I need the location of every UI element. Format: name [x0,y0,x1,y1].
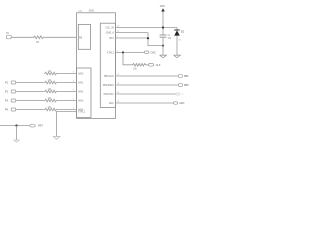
resistor R2 row y=73.5 [44,70,84,76]
ground [174,55,181,58]
connector circle OSC [144,51,149,54]
node junction [162,26,164,28]
power VCC symbol [160,4,166,35]
wire VCC pin y=27.5 [116,27,178,29]
U1 sub-block lower-left [77,68,92,117]
IC U1 outer block [77,13,116,119]
connector circle CLK [148,63,154,66]
svg-text:AIN0: AIN0 [78,73,84,76]
svg-text:AIN3: AIN3 [78,100,84,103]
connector P3 [11,99,16,102]
svg-text:8051: 8051 [89,9,95,13]
node junction [122,51,124,53]
svg-text:ADC: ADC [109,102,114,105]
wire [16,126,18,141]
resistor R6 row y=109.5 [5,106,84,112]
svg-text:PB1/SCK: PB1/SCK [104,75,115,78]
svg-text:AIN1: AIN1 [78,82,84,85]
ground [14,140,20,142]
wire [45,36,77,38]
connector P0 top-left [6,32,11,39]
no-connect marker [176,93,180,95]
wire [16,91,44,93]
wire L-shape to cap bottom [148,33,163,46]
wire XT pin y=52.5 [116,52,145,54]
node junction [162,45,164,47]
connector circle RST [30,124,35,127]
wire [58,91,77,93]
svg-text:OSC: OSC [151,51,156,54]
wire [16,82,44,84]
node junction [147,37,149,39]
svg-text:PB: PB [79,37,83,40]
svg-text:AIN2: AIN2 [78,91,84,94]
connector P4 [11,108,16,111]
wire [58,100,77,102]
wire L-shape down [123,53,132,65]
wire GND pin y=32.5 [116,32,149,34]
svg-text:XTAL1: XTAL1 [78,111,86,114]
ground [160,55,167,58]
wire ADC row y=103 [109,101,185,105]
svg-text:PB0/MISO: PB0/MISO [103,84,114,87]
wire PB1 row y=76 [104,74,189,78]
wire [58,82,77,84]
connector PB0 [178,84,182,87]
resistor R3 row y=82.5 [5,79,84,85]
wire bottom-left RST [0,125,30,127]
resistor R5 row y=100.5 [5,97,84,103]
resistor R3 [44,81,58,84]
wire [16,100,44,102]
svg-text:GND_A: GND_A [106,32,115,35]
wire NC row y=94 [104,92,185,96]
svg-text:PB2/OSC: PB2/OSC [104,93,115,96]
ground [53,137,60,140]
svg-text:PB1: PB1 [184,75,189,78]
svg-text:VCC: VCC [160,4,166,8]
diode D1 [174,28,185,56]
svg-text:ADC: ADC [179,102,184,105]
resistor R4 row y=91.5 [5,88,84,94]
svg-text:PB0: PB0 [184,84,189,87]
svg-text:RST: RST [38,125,43,128]
resistor R7 [132,64,147,67]
wire [11,36,33,38]
capacitor C1 [160,35,172,55]
U1 sub-block upper-left [78,24,90,49]
resistor R6 [44,108,58,111]
svg-text:CLK: CLK [156,64,161,67]
svg-text:R1: R1 [36,40,40,44]
wire [58,109,77,111]
resistor R2 [44,72,58,75]
wire RST pin y=38 [116,37,149,39]
wire [16,109,44,111]
connector circle ADC [173,102,177,105]
U1 sub-block right [100,23,115,107]
resistor R1 [33,36,45,39]
svg-text:VCC_IN: VCC_IN [105,27,114,30]
wire XTAL L-shape [57,112,77,137]
resistor R4 [44,90,58,93]
wire [147,64,149,66]
svg-text:NC: NC [182,94,186,96]
resistor R5 [44,99,58,102]
connector P2 [11,90,16,93]
connector PB1 [178,75,182,78]
svg-text:U1: U1 [79,9,83,13]
svg-text:XTAL2: XTAL2 [107,52,115,55]
wire [58,73,77,75]
wire PB0 row y=85 [103,83,189,87]
node junction [15,124,17,126]
connector P1 [11,81,16,84]
svg-text:RST: RST [109,37,114,40]
